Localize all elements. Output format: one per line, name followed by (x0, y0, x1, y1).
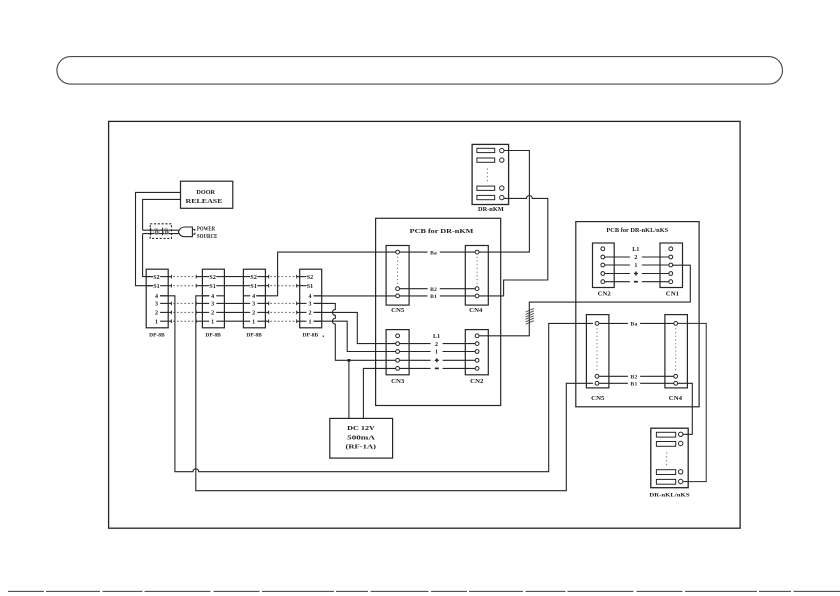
svg-text:2: 2 (634, 255, 637, 261)
svg-text:3: 3 (211, 302, 214, 308)
label row + (DR-nKL/nKS CN2-CN1) (605, 272, 669, 276)
wire DC supply + (348, 360, 350, 418)
svg-text:4: 4 (308, 294, 311, 300)
svg-text:PCB for DR-nKL/nKS: PCB for DR-nKL/nKS (606, 228, 668, 234)
power source wire pair (143, 229, 179, 231)
label row - (DR-nKM CN3-CN2) (400, 367, 476, 369)
svg-text:500mA: 500mA (347, 435, 375, 442)
svg-text:CN2: CN2 (598, 292, 611, 298)
wire harness row 1 (dotted, DP-8B 3-4) (265, 319, 299, 323)
door release box (181, 181, 233, 208)
power source plug (178, 227, 195, 237)
wire harness row S1 (dotted, DP-8B 3-4) (265, 284, 299, 288)
label row B1 (DR-nKL/nKS) (599, 382, 674, 388)
wire harness row 1 (dotted, DP-8B 1-2) (168, 319, 202, 323)
svg-text:1: 1 (634, 263, 637, 269)
svg-text:Ba: Ba (430, 250, 437, 256)
terminal screw 2 (163, 229, 169, 235)
wire CN2 L1 to CN1 terminal 1 (twisted run) (479, 265, 690, 336)
wire harness row 2 (solid, DP-8B 2-3) (224, 311, 243, 313)
wire CN4 B1 to DR-nKL/nKS top terminal (678, 383, 693, 434)
terminal tick 2 (162, 228, 164, 236)
power source label (197, 227, 218, 241)
svg-text:B2: B2 (430, 287, 437, 293)
wire DC supply - to CN3 (363, 368, 395, 418)
svg-text:S1: S1 (250, 284, 257, 290)
wire DP-8B#4 pin4 to CN5 B1 (DR-nKM) (314, 295, 396, 297)
wire harness row 2 (dotted, DP-8B 3-4) (265, 311, 299, 315)
svg-text:B1: B1 (430, 294, 437, 300)
svg-text:2: 2 (155, 311, 158, 317)
svg-text:L1: L1 (433, 334, 440, 340)
svg-text:3: 3 (252, 302, 255, 308)
svg-text:2: 2 (211, 311, 214, 317)
label row - (DR-nKL/nKS CN2-CN1) (605, 281, 669, 283)
page perforation dashed line (8, 590, 840, 592)
wire DP-8B#4 pin1 to CN3 terminal 1 (314, 321, 396, 351)
svg-text:L1: L1 (632, 247, 639, 253)
svg-text:CN5: CN5 (391, 308, 404, 314)
connector CN5 (DR-nKM) (386, 246, 409, 314)
power source terminal block (dashed) (150, 224, 171, 239)
svg-text:S2: S2 (153, 275, 160, 281)
svg-text:S2: S2 (307, 275, 314, 281)
connector CN3 (DR-nKM) (386, 330, 409, 385)
label row 2 (DR-nKM CN3-CN2) (400, 342, 476, 348)
PCB for DR-nKM board outline (376, 218, 501, 405)
svg-text:SOURCE: SOURCE (197, 234, 218, 240)
svg-text:1: 1 (308, 319, 311, 325)
wire harness row S2 (dotted, DP-8B 3-4) (265, 275, 299, 279)
wire CN4 Ba to DR-nKM call button 1 (479, 151, 529, 253)
DR-nKM door station (472, 144, 509, 213)
twisted pair hatch marks (526, 308, 534, 324)
svg-text:3: 3 (308, 302, 311, 308)
connector CN4 (DR-nKM) (465, 246, 488, 314)
PCB for DR-nKL/nKS board outline (576, 222, 699, 407)
svg-text:4: 4 (211, 294, 214, 300)
wire harness row 3 (dotted, DP-8B 1-2) (168, 302, 202, 306)
label row Ba (DR-nKL/nKS) (599, 322, 674, 328)
svg-text:S2: S2 (250, 275, 257, 281)
svg-text:CN3: CN3 (391, 379, 404, 385)
wire DP-8B#1 pin4 to CN5 Ba (DR-nKL/nKS) via bottom (160, 296, 593, 472)
svg-text:RELEASE: RELEASE (186, 198, 223, 205)
wire harness row S1 (dotted, DP-8B 1-2) (168, 284, 202, 288)
svg-text:CN4: CN4 (469, 308, 482, 314)
wire harness row 3 (solid, DP-8B 2-3) (224, 302, 243, 304)
wire CN4 B1 to DR-nKM speaker terminal (479, 195, 548, 295)
connector CN4 (DR-nKL/nKS) (665, 315, 688, 403)
label row B1 (DR-nKM) (400, 294, 476, 300)
label row B2 (DR-nKL/nKS) (599, 375, 674, 381)
svg-text:2: 2 (308, 311, 311, 317)
svg-text:S1: S1 (209, 284, 216, 290)
label row 1 (DR-nKL/nKS CN2-CN1) (605, 263, 669, 269)
wire harness row S2 (dotted, DP-8B 1-2) (168, 275, 202, 279)
wire DP-8B#3 pin4 to CN5 Ba (DR-nKM) (256, 252, 396, 296)
connector CN2 (DR-nKL/nKS) (593, 243, 615, 298)
label row B2 (DR-nKM) (400, 287, 476, 293)
svg-text:DC 12V: DC 12V (347, 425, 375, 432)
connector DP-8B #1 (146, 269, 168, 338)
svg-text:Ba: Ba (631, 322, 638, 328)
wire power source to DP-8B S2 (143, 234, 153, 277)
svg-text:2: 2 (435, 342, 438, 348)
DC 12V power supply box (330, 418, 393, 458)
svg-text:DR-nKL/nKS: DR-nKL/nKS (649, 493, 689, 499)
wire harness row S2 (solid, DP-8B 2-3) (224, 276, 243, 278)
svg-text:CN4: CN4 (669, 396, 682, 402)
svg-text:B1: B1 (631, 382, 638, 388)
svg-text:PCB for DR-nKM: PCB for DR-nKM (410, 229, 474, 235)
svg-text:1: 1 (252, 319, 255, 325)
label row L1 (DR-nKL/nKS CN2-CN1) (632, 247, 639, 253)
junction node DC+ (348, 359, 351, 362)
svg-text:3: 3 (155, 302, 158, 308)
svg-text:B2: B2 (631, 375, 638, 381)
label row 2 (DR-nKL/nKS CN2-CN1) (605, 255, 669, 261)
svg-text:DR-nKM: DR-nKM (478, 207, 504, 213)
DR-nKL/nKS door station (649, 428, 689, 498)
svg-text:4: 4 (155, 294, 158, 300)
wire door release terminal 1 to DP-8B S1 (136, 192, 181, 285)
svg-text:1: 1 (211, 319, 214, 325)
wire harness row S1 (solid, DP-8B 2-3) (224, 285, 243, 287)
svg-text:S2: S2 (209, 275, 216, 281)
svg-text:2: 2 (252, 311, 255, 317)
svg-text:S1: S1 (153, 284, 160, 290)
svg-text:1: 1 (155, 319, 158, 325)
svg-text:DP-8B: DP-8B (205, 333, 221, 339)
label row 1 (DR-nKM CN3-CN2) (400, 350, 476, 356)
wire CN4 Ba to DR-nKL/nKS lower terminal (678, 323, 707, 481)
wire DP-8B#4 pin2 to CN3 terminal 2 (314, 312, 396, 343)
svg-text:DP-8B: DP-8B (149, 333, 165, 339)
diagram border frame (109, 121, 741, 528)
terminal tick 1 (150, 228, 152, 236)
wire DP-8B#2 pin4 to CN5 B1 (DR-nKL/nKS) via bottom (196, 296, 593, 491)
svg-text:(RF-1A): (RF-1A) (346, 444, 377, 451)
connector DP-8B #3 (243, 269, 265, 338)
connector DP-8B #2 (202, 269, 224, 338)
svg-text:CN1: CN1 (666, 292, 679, 298)
connector DP-8B #4 (300, 269, 322, 338)
svg-text:DOOR: DOOR (196, 189, 215, 196)
svg-text:1: 1 (435, 350, 438, 356)
label row Ba (DR-nKM) (400, 250, 476, 256)
svg-text:CN5: CN5 (591, 396, 604, 402)
connector CN2 (DR-nKM) (465, 330, 488, 385)
svg-text:4: 4 (252, 294, 255, 300)
wire harness row 1 (solid, DP-8B 2-3) (224, 320, 243, 322)
svg-text:DP-8B: DP-8B (246, 333, 262, 339)
svg-text:CN2: CN2 (470, 379, 483, 385)
connector CN5 (DR-nKL/nKS) (586, 315, 609, 403)
stray dot after DP-8B #4 label (323, 335, 325, 337)
label row + (DR-nKM CN3-CN2) (400, 358, 476, 362)
title banner pill (57, 57, 783, 85)
svg-text:DP-8B: DP-8B (303, 333, 319, 339)
wire harness row 2 (dotted, DP-8B 1-2) (168, 311, 202, 315)
svg-text:S1: S1 (307, 284, 314, 290)
wire door release terminal 2 to power source (143, 199, 181, 230)
terminal screw 1 (154, 229, 160, 235)
wire DP-8B#4 pin3 to CN3 + terminal (314, 303, 396, 360)
connector CN1 (DR-nKL/nKS) (660, 243, 683, 298)
wire harness row 3 (dotted, DP-8B 3-4) (265, 302, 299, 306)
svg-text:POWER: POWER (197, 227, 216, 233)
label row L1 (DR-nKM CN3-CN2) (433, 334, 440, 340)
